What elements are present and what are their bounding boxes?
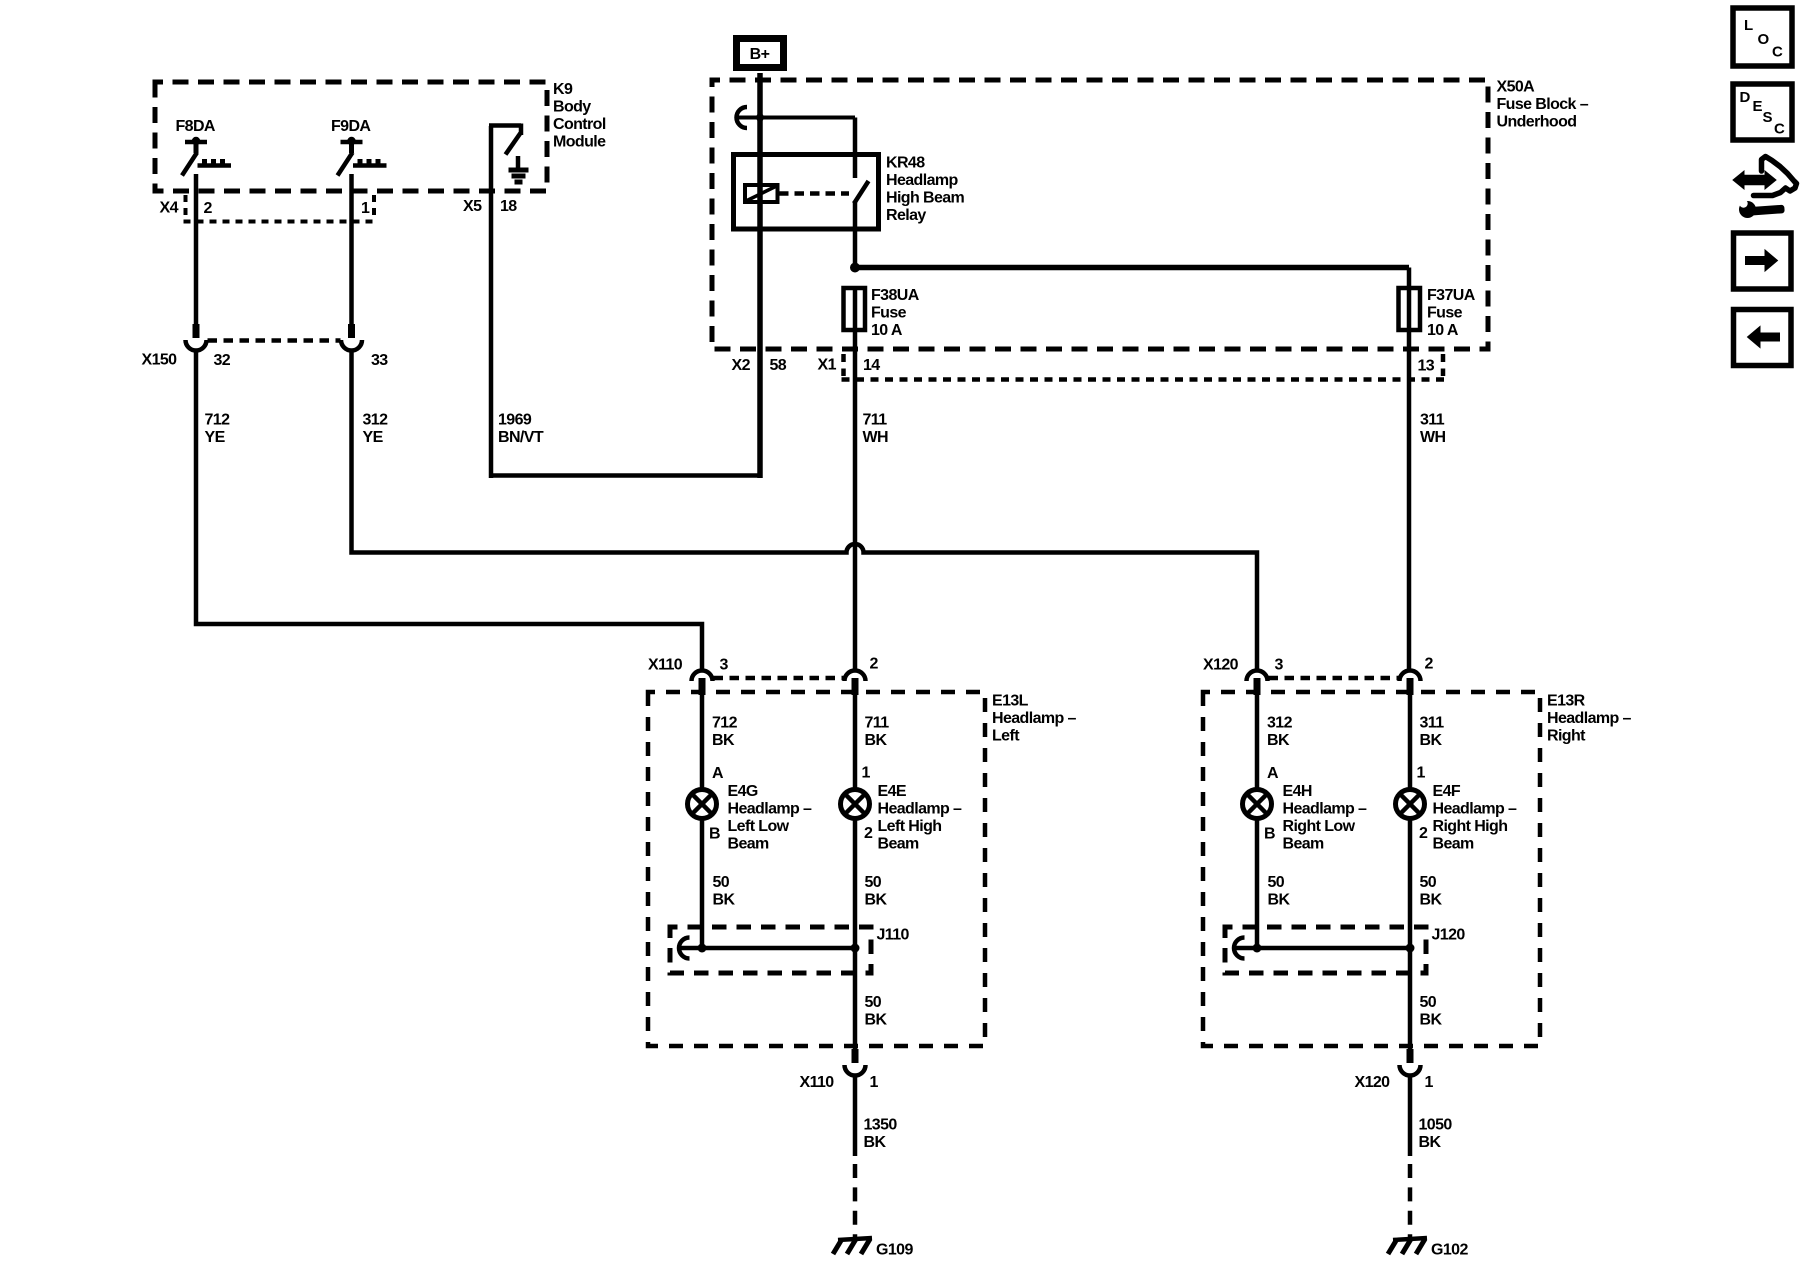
svg-text:50: 50	[713, 874, 730, 891]
svg-text:BK: BK	[1267, 732, 1290, 749]
svg-text:F37UA: F37UA	[1427, 287, 1476, 304]
svg-text:13: 13	[1418, 358, 1435, 375]
svg-text:L: L	[1744, 17, 1753, 34]
svg-text:1050: 1050	[1419, 1117, 1453, 1134]
svg-text:BK: BK	[865, 1012, 888, 1029]
svg-text:S: S	[1763, 109, 1773, 126]
svg-text:WH: WH	[1420, 429, 1446, 446]
svg-text:WH: WH	[863, 429, 889, 446]
svg-text:Headlamp –: Headlamp –	[878, 801, 963, 818]
svg-text:BK: BK	[1419, 1134, 1442, 1151]
svg-text:Left Low: Left Low	[728, 818, 790, 835]
svg-text:X150: X150	[142, 352, 178, 369]
svg-text:C: C	[1774, 121, 1785, 138]
svg-text:Headlamp –: Headlamp –	[1433, 801, 1518, 818]
svg-text:Underhood: Underhood	[1497, 114, 1577, 131]
svg-text:Headlamp: Headlamp	[886, 172, 958, 189]
svg-text:Right: Right	[1547, 728, 1586, 745]
svg-text:X120: X120	[1203, 657, 1239, 674]
svg-text:B+: B+	[750, 46, 770, 63]
svg-text:Fuse: Fuse	[1427, 305, 1463, 322]
svg-text:2: 2	[1425, 656, 1434, 673]
svg-text:K9: K9	[553, 81, 573, 98]
svg-text:G102: G102	[1431, 1242, 1468, 1259]
svg-text:X110: X110	[648, 657, 683, 674]
svg-text:F9DA: F9DA	[331, 118, 371, 135]
svg-text:2: 2	[204, 200, 213, 217]
svg-text:Headlamp –: Headlamp –	[1283, 801, 1368, 818]
svg-text:1: 1	[361, 200, 370, 217]
svg-text:X5: X5	[463, 198, 482, 215]
svg-text:1: 1	[862, 765, 871, 782]
svg-text:B: B	[1264, 826, 1275, 843]
svg-text:3: 3	[1275, 657, 1284, 674]
svg-text:Beam: Beam	[878, 836, 920, 853]
svg-text:E4G: E4G	[728, 783, 758, 800]
svg-text:50: 50	[865, 994, 882, 1011]
svg-text:E13L: E13L	[992, 693, 1029, 710]
svg-text:Body: Body	[553, 99, 591, 116]
svg-text:Relay: Relay	[886, 207, 926, 224]
svg-text:F38UA: F38UA	[871, 287, 920, 304]
svg-text:E4F: E4F	[1433, 783, 1461, 800]
svg-text:2: 2	[864, 825, 873, 842]
svg-text:18: 18	[500, 198, 517, 215]
svg-text:50: 50	[1268, 874, 1285, 891]
svg-text:X1: X1	[818, 357, 837, 374]
svg-text:A: A	[1267, 765, 1279, 782]
svg-text:BK: BK	[712, 732, 735, 749]
svg-text:711: 711	[863, 412, 888, 429]
svg-text:Fuse Block –: Fuse Block –	[1497, 96, 1589, 113]
svg-text:10 A: 10 A	[1427, 322, 1459, 339]
svg-text:X120: X120	[1355, 1074, 1391, 1091]
svg-text:BK: BK	[1268, 892, 1291, 909]
svg-text:711: 711	[865, 715, 890, 732]
svg-text:1969: 1969	[498, 412, 532, 429]
svg-text:E13R: E13R	[1547, 693, 1586, 710]
svg-text:58: 58	[770, 357, 787, 374]
svg-text:X4: X4	[160, 200, 179, 217]
svg-text:Fuse: Fuse	[871, 305, 907, 322]
svg-text:C: C	[1772, 44, 1783, 61]
svg-text:1350: 1350	[864, 1117, 898, 1134]
svg-text:D: D	[1740, 89, 1751, 106]
svg-text:33: 33	[371, 352, 388, 369]
svg-text:J110: J110	[877, 927, 910, 944]
svg-text:BK: BK	[713, 892, 736, 909]
svg-text:Control: Control	[553, 116, 606, 133]
svg-text:712: 712	[712, 715, 738, 732]
svg-text:Left High: Left High	[878, 818, 942, 835]
svg-text:X2: X2	[732, 357, 751, 374]
svg-text:BK: BK	[865, 892, 888, 909]
svg-text:311: 311	[1420, 715, 1445, 732]
svg-text:Beam: Beam	[728, 836, 770, 853]
svg-text:E: E	[1753, 98, 1763, 115]
svg-text:KR48: KR48	[886, 155, 925, 172]
svg-text:50: 50	[1420, 994, 1437, 1011]
svg-text:BK: BK	[865, 732, 888, 749]
svg-text:2: 2	[870, 656, 879, 673]
svg-text:32: 32	[214, 352, 231, 369]
svg-text:Right High: Right High	[1433, 818, 1508, 835]
svg-text:50: 50	[1420, 874, 1437, 891]
svg-text:312: 312	[363, 412, 389, 429]
svg-text:X50A: X50A	[1497, 79, 1536, 96]
svg-text:A: A	[712, 765, 724, 782]
svg-text:50: 50	[865, 874, 882, 891]
svg-text:F8DA: F8DA	[176, 118, 216, 135]
svg-text:3: 3	[720, 657, 729, 674]
svg-text:Headlamp –: Headlamp –	[1547, 710, 1632, 727]
svg-text:E4H: E4H	[1283, 783, 1312, 800]
svg-text:Headlamp –: Headlamp –	[992, 710, 1077, 727]
svg-text:E4E: E4E	[878, 783, 907, 800]
svg-text:O: O	[1758, 31, 1770, 48]
svg-text:High Beam: High Beam	[886, 190, 965, 207]
svg-text:YE: YE	[363, 429, 384, 446]
svg-text:1: 1	[1417, 765, 1426, 782]
svg-text:BK: BK	[1420, 892, 1443, 909]
svg-text:Beam: Beam	[1433, 836, 1475, 853]
svg-text:14: 14	[863, 357, 880, 374]
svg-text:J120: J120	[1432, 927, 1466, 944]
svg-text:1: 1	[1425, 1074, 1434, 1091]
svg-text:G109: G109	[876, 1242, 913, 1259]
svg-text:712: 712	[205, 412, 231, 429]
svg-text:Headlamp –: Headlamp –	[728, 801, 813, 818]
svg-text:1: 1	[870, 1074, 879, 1091]
svg-text:10 A: 10 A	[871, 322, 903, 339]
svg-text:Module: Module	[553, 134, 606, 151]
svg-text:X110: X110	[800, 1074, 835, 1091]
svg-text:B: B	[709, 826, 720, 843]
svg-text:BK: BK	[1420, 1012, 1443, 1029]
svg-text:312: 312	[1267, 715, 1293, 732]
svg-text:Right Low: Right Low	[1283, 818, 1356, 835]
svg-text:Beam: Beam	[1283, 836, 1325, 853]
svg-text:BK: BK	[1420, 732, 1443, 749]
svg-text:311: 311	[1420, 412, 1445, 429]
svg-text:YE: YE	[205, 429, 226, 446]
svg-text:Left: Left	[992, 728, 1020, 745]
svg-text:BK: BK	[864, 1134, 887, 1151]
svg-text:2: 2	[1419, 825, 1428, 842]
svg-text:BN/VT: BN/VT	[498, 429, 544, 446]
